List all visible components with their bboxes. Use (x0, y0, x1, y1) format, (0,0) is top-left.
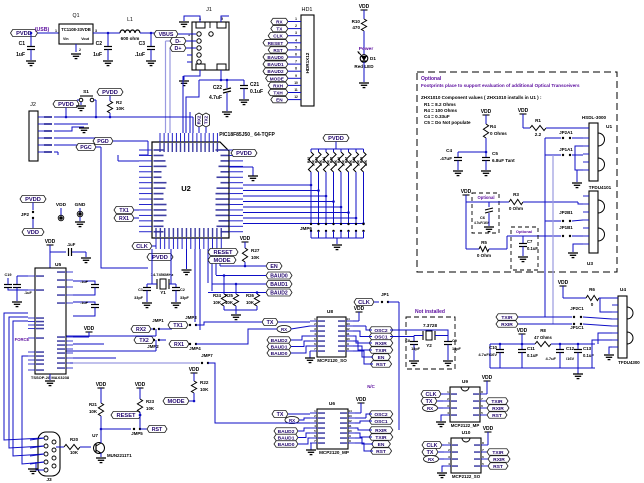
svg-text:10: 10 (348, 429, 352, 433)
svg-text:R15: R15 (330, 157, 334, 163)
svg-text:.1uF: .1uF (80, 280, 88, 284)
svg-text:1: 1 (295, 17, 297, 21)
svg-text:R24: R24 (213, 293, 222, 298)
svg-text:0 Ohms: 0 Ohms (490, 131, 507, 136)
svg-text:TFDU4101: TFDU4101 (589, 185, 612, 190)
svg-text:MODE: MODE (270, 76, 284, 81)
svg-text:C9: C9 (452, 339, 457, 343)
svg-text:PVDD: PVDD (58, 102, 74, 108)
svg-text:C1: C1 (138, 288, 143, 292)
svg-text:VDD: VDD (27, 230, 39, 236)
svg-text:U5: U5 (55, 262, 61, 268)
svg-text:C4 = 0.33uF: C4 = 0.33uF (424, 114, 450, 119)
svg-text:Power: Power (359, 46, 374, 52)
svg-text:TXIR: TXIR (501, 315, 513, 321)
svg-text:Footprints place to support ev: Footprints place to support evaluation o… (421, 83, 580, 88)
svg-text:Optional: Optional (478, 195, 495, 200)
svg-text:0.1uF: 0.1uF (527, 246, 538, 251)
svg-text:TX1: TX1 (173, 323, 183, 329)
svg-text:13: 13 (348, 414, 352, 418)
svg-text:1: 1 (55, 29, 57, 33)
svg-text:10K: 10K (89, 409, 98, 414)
svg-text:Vin: Vin (63, 37, 69, 41)
svg-text:RESET: RESET (117, 413, 136, 419)
svg-text:R4: R4 (490, 124, 496, 129)
svg-text:R23: R23 (146, 399, 155, 404)
svg-text:PVDD: PVDD (102, 90, 118, 96)
svg-text:MCP2122_MP: MCP2122_MP (451, 423, 480, 428)
svg-text:JMP2: JMP2 (147, 344, 159, 349)
svg-text:.1uF: .1uF (67, 242, 76, 247)
svg-text:RX2: RX2 (136, 327, 146, 333)
svg-text:RX: RX (281, 327, 287, 332)
svg-text:MODE: MODE (167, 399, 184, 405)
svg-text:0: 0 (591, 302, 594, 307)
svg-text:1uF: 1uF (93, 52, 102, 58)
svg-text:N/C: N/C (367, 384, 375, 389)
svg-text:18pF: 18pF (411, 347, 421, 351)
svg-text:10K: 10K (225, 300, 234, 305)
svg-text:Not installed: Not installed (415, 309, 445, 315)
svg-text:0 Ohm: 0 Ohm (509, 206, 523, 211)
svg-text:C4: C4 (446, 148, 452, 153)
svg-text:R26: R26 (246, 293, 255, 298)
svg-text:.47uF: .47uF (440, 156, 452, 161)
svg-text:VDD: VDD (135, 382, 146, 388)
svg-text:14.7456MHz: 14.7456MHz (151, 272, 174, 277)
svg-text:C2: C2 (180, 288, 185, 292)
svg-text:JP2A1: JP2A1 (559, 130, 573, 135)
svg-text:PVDD: PVDD (152, 255, 168, 261)
svg-text:RX2: RX2 (197, 115, 202, 124)
svg-text:MCP2122_SO: MCP2122_SO (452, 474, 481, 479)
svg-text:3: 3 (295, 31, 297, 35)
svg-text:PGC: PGC (80, 145, 92, 151)
svg-text:10: 10 (346, 337, 350, 341)
svg-text:C8: C8 (405, 339, 410, 343)
svg-text:VDD: VDD (56, 202, 67, 208)
svg-text:33pF: 33pF (134, 296, 144, 300)
svg-text:TX2: TX2 (204, 115, 209, 124)
svg-text:U8: U8 (327, 309, 333, 315)
svg-text:VDD: VDD (483, 426, 494, 432)
svg-text:C6: C6 (480, 215, 486, 220)
svg-text:U7: U7 (92, 433, 98, 438)
svg-text:D1: D1 (370, 56, 376, 61)
svg-text:U3: U3 (587, 261, 593, 267)
svg-text:HDR1X12: HDR1X12 (305, 52, 310, 73)
svg-text:VDD: VDD (558, 280, 569, 286)
svg-text:TX: TX (276, 27, 283, 32)
svg-text:VDD: VDD (189, 367, 200, 373)
svg-text:RXIR: RXIR (492, 406, 504, 412)
svg-text:RX1: RX1 (119, 216, 129, 222)
svg-text:14: 14 (346, 317, 350, 321)
svg-text:JMP3: JMP3 (185, 315, 197, 320)
svg-text:4.7uF: 4.7uF (209, 95, 222, 101)
svg-text:JP1A1: JP1A1 (559, 147, 573, 152)
svg-text:RST: RST (493, 464, 503, 470)
svg-text:C21: C21 (250, 82, 259, 88)
svg-text:VDD: VDD (482, 375, 493, 381)
svg-text:9: 9 (295, 74, 297, 78)
svg-text:BAUD2: BAUD2 (267, 69, 284, 74)
svg-text:MUN2211T1: MUN2211T1 (107, 453, 132, 458)
svg-text:TFDU4300: TFDU4300 (618, 360, 640, 365)
svg-text:12: 12 (294, 95, 298, 99)
svg-text:4.7uF/16V: 4.7uF/16V (478, 352, 497, 357)
svg-text:47 Ohms: 47 Ohms (534, 335, 552, 340)
svg-text:C5 = Do Not populate: C5 = Do Not populate (424, 120, 471, 125)
svg-text:7: 7 (295, 60, 297, 64)
svg-text:U2: U2 (181, 184, 191, 193)
svg-text:MODE: MODE (213, 258, 230, 264)
svg-text:C7: C7 (527, 239, 533, 244)
svg-text:470: 470 (352, 25, 360, 30)
svg-text:HD1: HD1 (301, 7, 312, 13)
svg-text:/16V: /16V (566, 356, 575, 361)
svg-text:J1: J1 (206, 7, 212, 13)
svg-text:BAUD0: BAUD0 (267, 55, 284, 60)
svg-text:MCP2120_SO: MCP2120_SO (317, 358, 347, 363)
svg-text:(USB): (USB) (35, 27, 50, 33)
svg-text:R4 = 100 Ohms: R4 = 100 Ohms (424, 108, 458, 113)
svg-text:11: 11 (294, 88, 298, 92)
svg-text:JMP5: JMP5 (131, 431, 143, 436)
svg-text:VDD: VDD (240, 236, 251, 242)
svg-text:EN: EN (378, 442, 385, 448)
svg-text:FORCE: FORCE (15, 337, 30, 342)
svg-text:U4: U4 (620, 287, 626, 293)
svg-text:U10: U10 (462, 430, 471, 436)
svg-text:J2: J2 (30, 102, 36, 108)
svg-text:VBUS: VBUS (159, 32, 174, 38)
svg-text:U1: U1 (606, 124, 612, 130)
svg-text:TXIR: TXIR (491, 399, 503, 405)
svg-text:TX: TX (267, 320, 274, 326)
svg-text:R1: R1 (535, 118, 541, 123)
svg-text:7.3728: 7.3728 (423, 323, 437, 328)
svg-text:R20: R20 (70, 437, 79, 442)
svg-text:MCP2120_MP: MCP2120_MP (319, 450, 349, 455)
svg-text:C12: C12 (566, 346, 575, 351)
svg-text:L1: L1 (127, 17, 133, 23)
svg-text:VDD: VDD (517, 328, 528, 334)
svg-text:10K: 10K (251, 255, 260, 260)
svg-text:10K: 10K (246, 300, 255, 305)
svg-text:VDD: VDD (461, 189, 472, 195)
svg-text:RXIR: RXIR (375, 428, 387, 434)
svg-text:R1 = 8.2 Ohms: R1 = 8.2 Ohms (424, 102, 456, 107)
svg-text:RXH: RXH (273, 83, 284, 88)
svg-text:3: 3 (95, 29, 97, 33)
svg-text:U9: U9 (462, 379, 468, 385)
svg-text:11: 11 (346, 332, 350, 336)
svg-text:R10: R10 (352, 19, 361, 24)
svg-text:.1uF: .1uF (80, 301, 88, 305)
svg-text:4.7uF/16V: 4.7uF/16V (474, 221, 490, 225)
svg-text:U6: U6 (329, 401, 335, 407)
svg-text:6.8uF Tant: 6.8uF Tant (492, 158, 515, 163)
svg-text:R25: R25 (225, 293, 234, 298)
svg-text:JP2C1: JP2C1 (570, 306, 584, 311)
svg-text:RXIR: RXIR (493, 457, 505, 463)
svg-text:TC1108-33VDB: TC1108-33VDB (61, 27, 91, 32)
svg-text:JP2B1: JP2B1 (559, 210, 573, 215)
svg-text:R14: R14 (322, 157, 326, 163)
svg-text:TX2: TX2 (139, 338, 149, 344)
svg-text:JP1C1: JP1C1 (570, 325, 584, 330)
svg-text:0 Ohm: 0 Ohm (477, 253, 491, 258)
svg-text:VDD: VDD (518, 108, 529, 114)
svg-text:TXIR: TXIR (492, 450, 504, 456)
svg-text:TXH: TXH (273, 91, 283, 96)
svg-text:EN: EN (378, 355, 385, 361)
svg-text:Optional: Optional (516, 229, 532, 234)
svg-text:Vout: Vout (81, 37, 90, 41)
svg-text:VDD: VDD (45, 239, 56, 245)
svg-text:JP1: JP1 (381, 292, 389, 297)
svg-text:Q1: Q1 (73, 13, 80, 19)
svg-text:C13: C13 (583, 346, 592, 351)
svg-text:1uF: 1uF (16, 52, 25, 58)
svg-text:BAUD1: BAUD1 (270, 282, 288, 288)
svg-text:HSDL-3000: HSDL-3000 (582, 115, 607, 120)
svg-text:C11: C11 (527, 346, 535, 351)
svg-text:BAUD0: BAUD0 (278, 442, 295, 448)
svg-text:CLK: CLK (273, 34, 283, 39)
svg-text:JMP1: JMP1 (152, 318, 164, 323)
svg-text:12: 12 (346, 327, 350, 331)
svg-text:VDD: VDD (96, 382, 107, 388)
svg-text:RESET: RESET (214, 250, 233, 256)
svg-text:BAUD0: BAUD0 (270, 274, 288, 280)
svg-text:BAUD1: BAUD1 (267, 62, 284, 67)
svg-text:RX: RX (427, 406, 433, 411)
svg-text:PVDD: PVDD (16, 31, 32, 37)
svg-text:0.1uF: 0.1uF (250, 89, 263, 95)
svg-text:10K: 10K (70, 450, 79, 455)
svg-text:D+: D+ (175, 46, 182, 52)
svg-text:10K: 10K (200, 387, 209, 392)
svg-text:TX1: TX1 (119, 208, 129, 214)
svg-text:C22: C22 (213, 85, 222, 91)
svg-text:PGD: PGD (97, 139, 109, 145)
svg-text:Y2: Y2 (426, 343, 432, 348)
svg-text:0.1uF: 0.1uF (527, 353, 538, 358)
svg-text:R16: R16 (337, 157, 341, 163)
svg-text:VDD: VDD (84, 326, 95, 332)
svg-text:VDD: VDD (359, 4, 370, 10)
svg-text:RX1: RX1 (174, 342, 184, 348)
svg-text:C19: C19 (5, 273, 12, 277)
svg-text:GND: GND (75, 202, 86, 208)
svg-text:.1uF: .1uF (135, 52, 145, 58)
svg-text:RX: RX (289, 418, 295, 423)
svg-text:5: 5 (295, 45, 297, 49)
svg-text:2: 2 (79, 48, 81, 52)
svg-text:RST: RST (492, 413, 502, 419)
svg-text:R13: R13 (315, 157, 319, 163)
svg-text:R21: R21 (89, 402, 98, 407)
svg-text:RST: RST (152, 427, 163, 433)
svg-text:R12: R12 (307, 157, 311, 163)
svg-text:TXIR: TXIR (375, 435, 387, 441)
svg-text:JP2: JP2 (21, 212, 30, 217)
svg-text:C10: C10 (489, 345, 498, 350)
svg-text:TXIR: TXIR (375, 348, 387, 354)
svg-text:2: 2 (295, 24, 297, 28)
svg-text:11: 11 (348, 424, 352, 428)
svg-text:J3: J3 (46, 477, 52, 483)
svg-text:Y1: Y1 (160, 290, 166, 295)
svg-text:R22: R22 (200, 380, 209, 385)
svg-text:RESET: RESET (268, 41, 284, 46)
svg-text:14: 14 (348, 409, 352, 413)
svg-text:18pF: 18pF (452, 347, 462, 351)
svg-text:R17: R17 (345, 157, 349, 163)
svg-text:RXIR: RXIR (501, 322, 513, 328)
svg-text:BAUD0: BAUD0 (271, 351, 288, 357)
svg-text:8: 8 (295, 67, 297, 71)
svg-text:JP1B1: JP1B1 (559, 225, 573, 230)
svg-text:10K: 10K (116, 106, 125, 111)
svg-text:10K: 10K (364, 159, 368, 166)
svg-text:C5: C5 (492, 151, 498, 156)
svg-text:C1: C1 (19, 41, 26, 47)
svg-text:C2: C2 (96, 41, 103, 47)
svg-text:VDD: VDD (354, 306, 365, 312)
svg-text:13: 13 (346, 322, 350, 326)
svg-text:R8: R8 (540, 328, 546, 333)
svg-text:OSC2: OSC2 (374, 412, 388, 418)
svg-text:10: 10 (294, 81, 298, 85)
svg-text:.1uF: .1uF (24, 291, 32, 295)
svg-text:4: 4 (295, 38, 297, 42)
svg-text:PVDD: PVDD (236, 151, 252, 157)
svg-text:JMP7: JMP7 (201, 353, 213, 358)
svg-text:10K: 10K (213, 300, 222, 305)
svg-text:ZHX1010 Component values ( ZHX: ZHX1010 Component values ( ZHX1010 insta… (421, 95, 542, 100)
svg-text:EN: EN (270, 264, 278, 270)
svg-text:2.2: 2.2 (535, 132, 542, 137)
svg-text:R3: R3 (513, 192, 519, 197)
svg-text:JMP4: JMP4 (189, 346, 201, 351)
svg-text:R5: R5 (481, 240, 487, 245)
svg-text:33pF: 33pF (180, 296, 190, 300)
svg-text:RX: RX (276, 20, 283, 25)
svg-text:RXIR: RXIR (375, 341, 387, 347)
svg-text:TX: TX (277, 412, 284, 418)
svg-text:R2: R2 (116, 100, 122, 105)
svg-text:EN: EN (276, 98, 283, 103)
svg-text:VDD: VDD (356, 397, 367, 403)
svg-text:600 ohm: 600 ohm (121, 36, 140, 41)
svg-text:OSC1: OSC1 (374, 419, 388, 425)
svg-text:RST: RST (376, 362, 386, 368)
svg-text:6: 6 (295, 53, 297, 57)
svg-text:4.7uF: 4.7uF (546, 356, 557, 361)
svg-text:BAUD2: BAUD2 (270, 291, 288, 297)
svg-text:R18: R18 (352, 157, 356, 163)
svg-text:R19: R19 (360, 157, 364, 163)
svg-text:12: 12 (348, 419, 352, 423)
svg-text:CLK: CLK (136, 244, 149, 250)
svg-text:C3: C3 (139, 41, 146, 47)
svg-text:10K: 10K (146, 406, 155, 411)
svg-text:RX: RX (428, 457, 434, 462)
svg-text:PVDD: PVDD (328, 136, 344, 142)
svg-text:R27: R27 (251, 248, 260, 253)
svg-text:PIC18F85J50_ 64-TQFP: PIC18F85J50_ 64-TQFP (219, 132, 275, 138)
svg-text:0.1uF: 0.1uF (583, 353, 594, 358)
svg-text:Optional: Optional (421, 76, 442, 82)
svg-text:S1: S1 (83, 89, 89, 95)
svg-text:R6: R6 (589, 287, 595, 292)
svg-text:RST: RST (273, 48, 283, 53)
svg-text:PVDD: PVDD (25, 197, 41, 203)
svg-text:RST: RST (376, 449, 386, 455)
svg-text:VDD: VDD (481, 109, 492, 115)
